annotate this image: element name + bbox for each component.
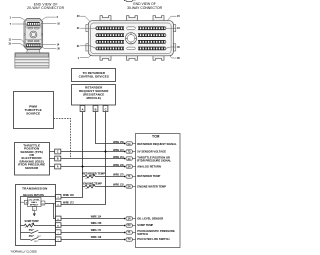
transmission terminal t6 psi filter	[55, 237, 61, 242]
box: retarder request sensor (resistance module)	[72, 85, 116, 106]
pin 24 row6	[124, 185, 136, 188]
svg-text:PSI *: PSI *	[29, 235, 35, 238]
svg-text:*NORMALLY CLOSED: *NORMALLY CLOSED	[11, 250, 38, 254]
svg-text:WIRE 172: WIRE 172	[63, 203, 74, 205]
connector J1 neck to base	[27, 49, 40, 53]
svg-text:RETARDER REQUEST SIGNAL: RETARDER REQUEST SIGNAL	[137, 142, 177, 146]
wire: module B to row1 retarder request	[96, 112, 125, 144]
svg-text:A: A	[57, 165, 59, 169]
connector J2 center circle	[125, 33, 136, 44]
connector J2 bottom mounting tabs	[100, 56, 111, 60]
terminal B of TPS	[50, 158, 55, 160]
wire: module A vertical / analog return bus	[61, 112, 83, 198]
connector J2 side bumps	[86, 25, 88, 32]
connector J1 upper slots	[28, 27, 33, 29]
svg-text:B: B	[57, 157, 59, 161]
svg-text:SWITCH: SWITCH	[137, 232, 148, 236]
svg-text:20-WAY CONNECTOR: 20-WAY CONNECTOR	[27, 6, 65, 10]
terminal B of resistance module	[93, 106, 98, 112]
svg-text:MODULE): MODULE)	[86, 96, 101, 100]
svg-text:SENSOR: SENSOR	[25, 166, 39, 170]
svg-text:ENGINE WATER TEMP: ENGINE WATER TEMP	[137, 184, 166, 188]
svg-text:WIRE 156: WIRE 156	[113, 142, 124, 144]
transmission terminal t4 sump temp	[55, 223, 61, 228]
wire: module C vertical / 5V rail to transmission	[61, 112, 106, 205]
wire b1: oil level sensor to TCM	[61, 218, 124, 220]
svg-text:C: C	[105, 108, 107, 112]
svg-text:WIRE 114: WIRE 114	[91, 215, 102, 218]
svg-text:PSI FILTER LIFE SWITCH: PSI FILTER LIFE SWITCH	[137, 237, 169, 241]
svg-text:TCM: TCM	[152, 134, 160, 138]
svg-text:30-WAY CONNECTOR: 30-WAY CONNECTOR	[127, 6, 162, 10]
pin 71 row5	[124, 175, 136, 178]
wire: oil level B to t2/t3	[45, 204, 55, 219]
svg-text:WIRE 164: WIRE 164	[113, 156, 124, 159]
connector J2 30-way end view	[86, 16, 176, 61]
connector J2 pin row 3	[96, 40, 167, 44]
connector J2 pin labels right	[177, 15, 180, 60]
oil level sensor terminal A	[24, 200, 28, 204]
transmission terminal t5 psi diag	[55, 230, 61, 235]
pin 34 row4	[124, 165, 136, 168]
oil level sensor terminal C	[32, 207, 36, 211]
terminal A of resistance module	[80, 106, 85, 112]
pin 54 row1	[124, 142, 136, 145]
wire b3: psi diag to TCM	[61, 232, 124, 234]
box: TPS / EBS pressure sensor	[15, 143, 50, 176]
transmission box	[16, 185, 56, 246]
pin 14 oil level	[124, 217, 136, 220]
connector J1 lower slots	[28, 40, 33, 42]
connector J2 pin row 2	[96, 33, 167, 37]
connector J2 pin row 1	[96, 26, 167, 30]
pin 64 sump temp	[124, 224, 136, 227]
svg-text:SOURCE: SOURCE	[26, 112, 40, 116]
box: TO RETARDER CONTROL DEVICES	[72, 69, 116, 82]
transmission terminal t3 oil level	[55, 216, 61, 221]
title 20-way connector	[27, 2, 65, 10]
pin 73 row2	[124, 150, 136, 153]
connector J2 leader lines left	[80, 16, 96, 58]
svg-text:RETARDER TEMP: RETARDER TEMP	[82, 172, 105, 176]
wire row2: TPS C to TCM 5v sensor voltage	[61, 151, 125, 153]
wire row6: engine temp to TCM	[98, 186, 125, 188]
connector J1 body section lines	[25, 26, 41, 28]
pin 74 psi filter	[124, 238, 136, 241]
svg-text:CONTROL DEVICES: CONTROL DEVICES	[79, 74, 109, 78]
ground stub below C	[33, 211, 35, 216]
TCM box	[136, 134, 181, 248]
wire labels rows 1-6	[113, 142, 124, 187]
svg-text:NC*: NC*	[34, 241, 38, 243]
TCM input labels	[137, 142, 177, 241]
oil level sensor sub-box	[28, 198, 42, 207]
connector J1 pin labels right	[57, 16, 61, 51]
terminal A of TPS	[50, 166, 55, 168]
svg-text:5V SENSOR VOLTAGE: 5V SENSOR VOLTAGE	[137, 150, 166, 154]
connector J2 top mounting tabs	[100, 16, 111, 21]
svg-text:EFFECT: EFFECT	[30, 205, 39, 207]
connector J1 leader lines left	[12, 17, 27, 46]
svg-text:RETARDER TEMP: RETARDER TEMP	[137, 174, 160, 178]
svg-text:M: M	[57, 226, 59, 228]
svg-text:C: C	[57, 150, 59, 154]
connector J1 center circle	[30, 31, 37, 38]
connector J1 leader lines right	[41, 17, 57, 48]
terminal C of TPS	[50, 151, 55, 153]
connector J1 base	[15, 53, 49, 68]
wire row4: TPS A to TCM analog return	[61, 166, 125, 168]
svg-text:SUMP TEMP: SUMP TEMP	[25, 220, 40, 223]
connector J1 top pin row	[26, 22, 40, 26]
connector J1 pin labels left	[8, 16, 11, 45]
svg-text:WIRE 172: WIRE 172	[113, 150, 124, 152]
connector J1 side notches	[24, 33, 43, 36]
connector J2 leader lines right	[166, 16, 176, 58]
connector J1 20-way end view	[24, 19, 43, 53]
svg-text:WIRE 158: WIRE 158	[91, 223, 102, 225]
wire row3: TPS B to TCM throttle position signal	[61, 158, 125, 160]
svg-text:WIRE 132: WIRE 132	[113, 185, 124, 187]
connector J2 pin row 4	[96, 46, 167, 50]
wire: internal analog return	[21, 197, 56, 240]
svg-text:WIRE 118: WIRE 118	[91, 237, 102, 239]
svg-text:B: B	[95, 108, 97, 112]
wire b2: sump temp to TCM	[61, 225, 124, 227]
wire b4: psi filter to TCM	[61, 239, 124, 241]
terminal C of resistance module	[103, 106, 108, 112]
connector J1 bottom pin row	[26, 43, 42, 47]
svg-text:WIRE 135: WIRE 135	[113, 165, 124, 167]
pin 71 psi diag	[124, 231, 136, 234]
svg-text:SUMP TEMP: SUMP TEMP	[137, 223, 153, 227]
svg-text:TRANSMISSION: TRANSMISSION	[22, 186, 47, 190]
pin 44 row3	[124, 157, 136, 160]
transmission terminal t2	[55, 202, 61, 207]
svg-text:ANALOG RETURN: ANALOG RETURN	[137, 164, 161, 168]
junction dot row4 x analog return bus	[82, 166, 84, 168]
svg-text:OIL LEVEL SENSOR: OIL LEVEL SENSOR	[137, 216, 163, 220]
oil level sensor terminal B	[41, 201, 45, 205]
connector J2 body	[88, 21, 173, 56]
svg-text:WIRE 138: WIRE 138	[63, 195, 74, 197]
wire: dashed PWM option line	[54, 119, 71, 159]
junction dot row2 x module C	[105, 151, 107, 153]
connector J1 body	[24, 19, 43, 50]
svg-text:WIRE 175: WIRE 175	[113, 174, 124, 176]
svg-text:PSI *: PSI *	[29, 229, 35, 232]
svg-text:A: A	[82, 108, 84, 112]
svg-text:WIRE 171: WIRE 171	[91, 230, 102, 232]
wire row5: retarder temp to TCM	[98, 176, 125, 178]
transmission terminal t1 analog return	[55, 194, 61, 199]
svg-text:HALL: HALL	[31, 201, 37, 204]
box: PWM throttle source	[14, 92, 54, 129]
connector J2 pin row white cells	[97, 27, 166, 49]
connector J2 pin labels left	[77, 15, 80, 60]
svg-text:RTDR PRESSURE SIGNAL: RTDR PRESSURE SIGNAL	[137, 158, 171, 162]
TCM pin terminals top group	[124, 0, 136, 2]
title 30-way connector	[127, 2, 162, 10]
